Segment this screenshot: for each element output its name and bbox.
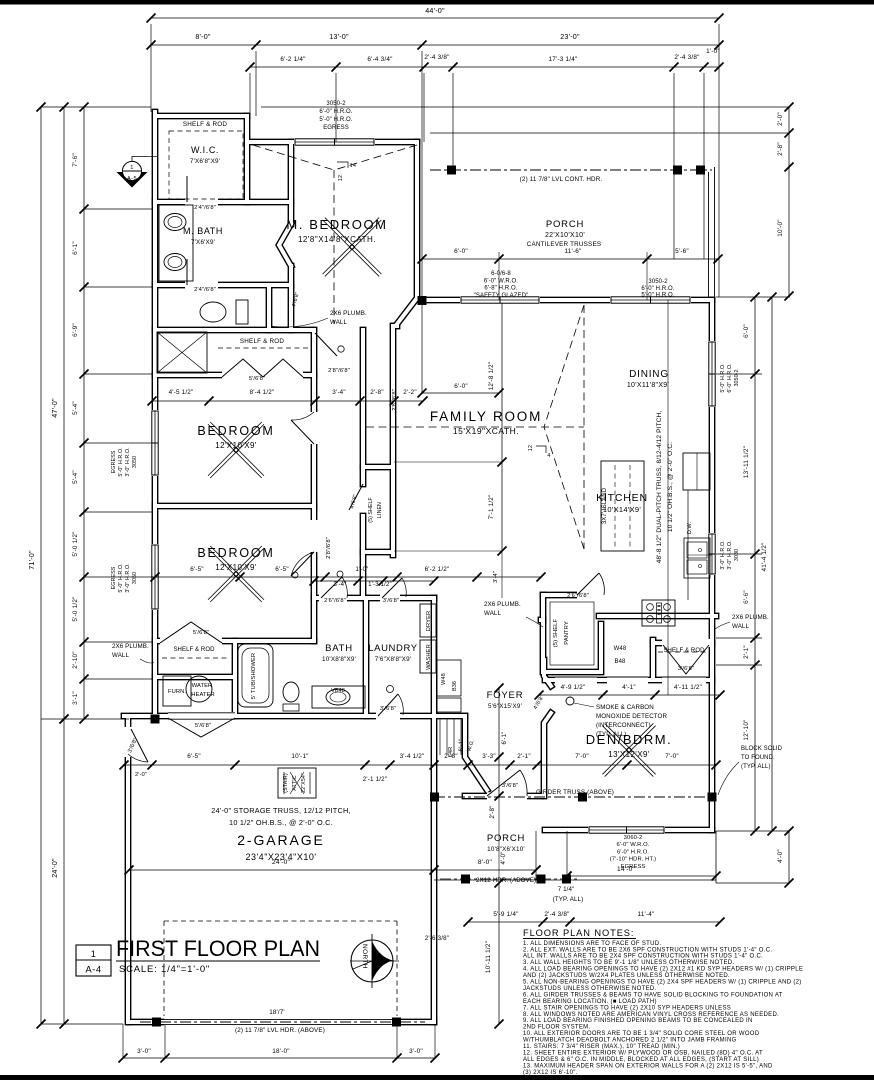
svg-text:2'-4 3/8": 2'-4 3/8" <box>544 911 569 918</box>
svg-text:3050-2: 3050-2 <box>326 101 346 107</box>
svg-text:8. ALL WINDOWS NOTED ARE AMERI: 8. ALL WINDOWS NOTED ARE AMERICAN VINYL … <box>523 1012 779 1018</box>
svg-text:4: 4 <box>547 453 550 459</box>
svg-text:A-4: A-4 <box>85 965 101 976</box>
svg-text:EACH BEARING LOCATION. (■ LOAD: EACH BEARING LOCATION. (■ LOAD PATH) <box>523 999 657 1005</box>
svg-text:7 1/4": 7 1/4" <box>558 886 575 893</box>
svg-text:2'4"/6'8": 2'4"/6'8" <box>194 287 216 293</box>
svg-text:5'-0" H.R.O.: 5'-0" H.R.O. <box>118 563 124 592</box>
svg-text:6'-5": 6'-5" <box>190 566 204 573</box>
svg-text:3'-4": 3'-4" <box>493 571 499 583</box>
svg-text:FURN.: FURN. <box>168 689 186 695</box>
svg-text:10'-0": 10'-0" <box>777 219 784 236</box>
svg-text:7'-0": 7'-0" <box>575 753 589 760</box>
svg-text:47'-0": 47'-0" <box>50 398 59 418</box>
svg-text:SHELF & ROD: SHELF & ROD <box>240 338 284 345</box>
svg-text:2'-2": 2'-2" <box>403 389 417 396</box>
svg-text:AND (2) JACKSTUDS W/2X4 PLATES: AND (2) JACKSTUDS W/2X4 PLATES UNLESS OT… <box>523 973 730 979</box>
svg-text:3'-0": 3'-0" <box>409 1048 423 1055</box>
svg-text:2'-1": 2'-1" <box>743 645 750 659</box>
svg-text:BEDROOM: BEDROOM <box>197 424 274 438</box>
svg-text:3'-3": 3'-3" <box>482 753 496 760</box>
svg-text:WALL: WALL <box>330 319 347 326</box>
svg-text:2. ALL EXT. WALLS ARE TO BE 2X: 2. ALL EXT. WALLS ARE TO BE 2X6 SPF CONS… <box>523 947 772 953</box>
svg-text:(7'-10" HDR. HT.): (7'-10" HDR. HT.) <box>610 857 656 863</box>
svg-text:(3) 2X12 IS 6'-10".: (3) 2X12 IS 6'-10". <box>523 1070 578 1076</box>
svg-text:SCALE: 1/4"=1'-0": SCALE: 1/4"=1'-0" <box>119 964 210 975</box>
svg-text:6'-2 1/4": 6'-2 1/4" <box>280 56 305 63</box>
svg-text:10'-1": 10'-1" <box>291 753 308 760</box>
svg-text:6-0/6-8: 6-0/6-8 <box>491 271 511 277</box>
svg-text:10. ALL EXTERIOR DOORS ARE TO: 10. ALL EXTERIOR DOORS ARE TO BE 1 3/4" … <box>523 1031 760 1037</box>
svg-text:FLOOR PLAN NOTES:: FLOOR PLAN NOTES: <box>523 928 634 938</box>
svg-text:3'-1": 3'-1" <box>72 691 79 705</box>
svg-text:6'-1": 6'-1" <box>72 241 79 255</box>
svg-text:BATH: BATH <box>325 643 353 654</box>
svg-text:B48: B48 <box>615 659 627 665</box>
svg-text:1: 1 <box>91 949 96 959</box>
svg-text:2'-8": 2'-8" <box>490 806 496 819</box>
svg-text:13'-0": 13'-0" <box>329 32 349 41</box>
svg-text:5'-0" H.R.O.: 5'-0" H.R.O. <box>319 117 352 123</box>
svg-text:12: 12 <box>528 445 534 452</box>
svg-text:5' TUB/SHOWER: 5' TUB/SHOWER <box>251 653 257 699</box>
svg-text:ATTIC: ATTIC <box>292 775 298 790</box>
svg-text:22"X54": 22"X54" <box>301 773 307 793</box>
svg-text:2'-4 3/8": 2'-4 3/8" <box>674 54 699 61</box>
svg-text:12'-10": 12'-10" <box>743 719 750 740</box>
svg-text:11. STAIRS: 7 3/4" RISER (MAX: 11. STAIRS: 7 3/4" RISER (MAX.), 10" TRE… <box>523 1044 680 1050</box>
svg-text:5'/6'8": 5'/6'8" <box>195 723 211 729</box>
svg-text:5'-4": 5'-4" <box>72 401 79 415</box>
svg-text:M. BEDROOM: M. BEDROOM <box>286 217 387 232</box>
svg-text:71'-0": 71'-0" <box>27 550 36 570</box>
svg-text:5'/6'8": 5'/6'8" <box>193 630 209 636</box>
svg-text:EGRESS: EGRESS <box>111 450 117 473</box>
svg-text:3'/6'8": 3'/6'8" <box>380 706 396 712</box>
svg-text:2X6 PLUMB.: 2X6 PLUMB. <box>330 310 367 317</box>
svg-text:W.I.C.: W.I.C. <box>191 145 219 155</box>
svg-text:7'6"X8'8"X9': 7'6"X8'8"X9' <box>375 656 411 663</box>
svg-text:(TYP. ALL): (TYP. ALL) <box>553 896 583 903</box>
svg-text:PANTRY: PANTRY <box>564 621 570 645</box>
svg-text:4'-1": 4'-1" <box>622 684 636 691</box>
svg-text:2'-6 3/8": 2'-6 3/8" <box>425 935 449 942</box>
svg-text:5'-0 1/2": 5'-0 1/2" <box>72 596 79 621</box>
svg-text:12'X10'X9': 12'X10'X9' <box>215 563 257 572</box>
svg-text:12'8"X14'8"XCATH.: 12'8"X14'8"XCATH. <box>298 235 376 244</box>
svg-text:8'-4 1/2": 8'-4 1/2" <box>250 389 275 396</box>
svg-text:10 1/2" OH.B.S., @ 2'-0" O.C.: 10 1/2" OH.B.S., @ 2'-0" O.C. <box>229 818 333 827</box>
svg-text:ALL INT. WALLS ARE TO BE 2X4 S: ALL INT. WALLS ARE TO BE 2X4 SPF CONSTRU… <box>523 954 763 960</box>
svg-text:44'-0": 44'-0" <box>425 6 445 15</box>
svg-text:2'8"/6'8": 2'8"/6'8" <box>392 389 398 411</box>
svg-text:6'-0": 6'-0" <box>454 248 468 255</box>
svg-text:FOYER: FOYER <box>487 690 524 701</box>
svg-text:1: 1 <box>130 165 134 171</box>
svg-text:(2) 11 7/8" LVL CONT. HDR.: (2) 11 7/8" LVL CONT. HDR. <box>520 176 603 183</box>
svg-text:6'-4 3/4": 6'-4 3/4" <box>367 56 392 63</box>
svg-text:3'-0" H.R.O.: 3'-0" H.R.O. <box>125 447 131 476</box>
svg-text:13'-11 1/2": 13'-11 1/2" <box>743 446 750 478</box>
svg-text:(TYP. ALL): (TYP. ALL) <box>741 764 771 770</box>
svg-text:MONOXIDE DETECTOR: MONOXIDE DETECTOR <box>596 713 667 720</box>
svg-text:3050-2: 3050-2 <box>648 279 668 285</box>
svg-text:WALL: WALL <box>484 610 501 617</box>
svg-text:TO FOUND.: TO FOUND. <box>741 755 775 761</box>
svg-text:2'8"/6'8": 2'8"/6'8" <box>328 368 350 374</box>
svg-text:(TYP. ALL): (TYP. ALL) <box>596 731 626 738</box>
svg-text:2'-1": 2'-1" <box>517 753 531 760</box>
svg-text:1'-3 1/2": 1'-3 1/2" <box>368 582 392 588</box>
svg-text:41'-4 1/2": 41'-4 1/2" <box>761 543 768 572</box>
svg-text:22'X10'X10': 22'X10'X10' <box>545 232 585 239</box>
svg-text:D.W.: D.W. <box>687 521 693 534</box>
svg-text:3'/6'8": 3'/6'8" <box>383 598 399 604</box>
svg-text:6. ALL GIRDER TRUSSES & BEAMS: 6. ALL GIRDER TRUSSES & BEAMS TO HAVE SO… <box>523 992 783 998</box>
svg-text:18'/7': 18'/7' <box>269 1009 285 1016</box>
svg-text:3030: 3030 <box>734 549 740 561</box>
svg-text:7'X6'8"X9': 7'X6'8"X9' <box>190 158 220 165</box>
svg-text:2ND FLOOR SYSTEM.: 2ND FLOOR SYSTEM. <box>523 1025 590 1031</box>
svg-text:WASHER: WASHER <box>426 644 432 670</box>
svg-text:WATER: WATER <box>192 683 213 689</box>
svg-text:8'-0": 8'-0" <box>478 859 493 866</box>
svg-text:3'/6'8": 3'/6'8" <box>502 783 518 789</box>
svg-text:A-5: A-5 <box>127 176 137 182</box>
svg-text:24'-0": 24'-0" <box>50 858 59 878</box>
svg-text:4'-11 1/2": 4'-11 1/2" <box>674 684 702 691</box>
svg-text:6'-8" H.R.O.: 6'-8" H.R.O. <box>484 286 517 292</box>
svg-text:5'-0" H.R.O.: 5'-0" H.R.O. <box>720 363 726 392</box>
svg-text:2'-10": 2'-10" <box>72 651 79 668</box>
svg-text:EGRESS: EGRESS <box>111 566 117 589</box>
svg-text:1'-0": 1'-0" <box>356 567 369 573</box>
svg-text:4'-0": 4'-0" <box>777 849 784 863</box>
svg-text:6'-5": 6'-5" <box>187 753 201 760</box>
svg-text:2'6"/6'8": 2'6"/6'8" <box>567 593 589 599</box>
svg-text:3'-0": 3'-0" <box>137 1048 151 1055</box>
svg-text:2'8"/6'8": 2'8"/6'8" <box>326 537 332 559</box>
svg-text:2X6 PLUMB.: 2X6 PLUMB. <box>484 601 521 608</box>
svg-text:GIRDER TRUSS (ABOVE): GIRDER TRUSS (ABOVE) <box>536 789 614 796</box>
svg-text:6'-9": 6'-9" <box>72 323 79 337</box>
svg-text:48'-8 1/2" DUAL-PITCH TRUSS, 8: 48'-8 1/2" DUAL-PITCH TRUSS, 8/12-4/12 P… <box>656 411 663 564</box>
svg-text:2-GARAGE: 2-GARAGE <box>237 832 325 848</box>
svg-text:2'4"/6'8": 2'4"/6'8" <box>194 205 216 211</box>
svg-text:3X7' ISLAND: 3X7' ISLAND <box>602 487 608 524</box>
svg-text:17'-3 1/4": 17'-3 1/4" <box>549 56 578 63</box>
svg-text:10'-11 1/2": 10'-11 1/2" <box>485 941 492 973</box>
svg-text:7'-0": 7'-0" <box>665 753 679 760</box>
svg-text:54R: 54R <box>448 747 454 757</box>
svg-text:6'-1": 6'-1" <box>502 732 508 745</box>
svg-text:5'-6": 5'-6" <box>675 248 689 255</box>
svg-text:7'-6": 7'-6" <box>72 153 79 167</box>
svg-text:5. ALL NON-BEARING OPENINGS TO: 5. ALL NON-BEARING OPENINGS TO HAVE (2) … <box>523 980 802 986</box>
svg-text:5'-4": 5'-4" <box>72 470 79 484</box>
svg-text:5'/6'8": 5'/6'8" <box>249 376 265 382</box>
svg-text:"SAFETY GLAZED": "SAFETY GLAZED" <box>474 293 529 299</box>
svg-text:6'-0" H.R.O.: 6'-0" H.R.O. <box>727 363 733 392</box>
svg-text:10'X11'8"X9': 10'X11'8"X9' <box>627 382 669 389</box>
svg-text:6'-0" W.R.O.: 6'-0" W.R.O. <box>616 842 649 848</box>
svg-text:11'-6": 11'-6" <box>564 248 581 255</box>
svg-text:10'X14'X9': 10'X14'X9' <box>603 505 641 514</box>
svg-text:(5) SHELF: (5) SHELF <box>368 497 374 523</box>
svg-text:5'-0" H.R.O.: 5'-0" H.R.O. <box>641 293 674 299</box>
svg-text:M. BATH: M. BATH <box>183 226 223 236</box>
svg-text:10'8"X6'X10': 10'8"X6'X10' <box>487 846 525 853</box>
svg-text:6'-6": 6'-6" <box>743 590 750 604</box>
svg-text:7'-1 1/2": 7'-1 1/2" <box>488 495 495 520</box>
svg-text:6'-0" H.R.O.: 6'-0" H.R.O. <box>319 109 352 115</box>
svg-text:4'-9 1/2": 4'-9 1/2" <box>561 684 586 691</box>
svg-text:SHELF & ROD: SHELF & ROD <box>663 648 705 654</box>
svg-text:4'-5 1/2": 4'-5 1/2" <box>169 389 194 396</box>
svg-text:B36: B36 <box>452 681 458 691</box>
svg-text:PORCH: PORCH <box>487 833 525 844</box>
svg-text:FAMILY ROOM: FAMILY ROOM <box>430 409 542 424</box>
svg-text:9. ALL LOAD BEARING FINISHED O: 9. ALL LOAD BEARING FINISHED OPENING BEA… <box>523 1018 753 1024</box>
svg-text:4'-0": 4'-0" <box>501 852 507 865</box>
svg-text:3'/6'8": 3'/6'8" <box>678 666 694 672</box>
svg-text:6'-2 1/2": 6'-2 1/2" <box>425 566 450 573</box>
svg-text:10 1/2" OH.B.S., @ 2'-0" O.C.: 10 1/2" OH.B.S., @ 2'-0" O.C. <box>667 442 674 532</box>
svg-text:3050-2: 3050-2 <box>734 369 740 386</box>
svg-text:SMOKE & CARBON: SMOKE & CARBON <box>596 704 654 711</box>
svg-text:6'-5": 6'-5" <box>275 566 289 573</box>
svg-text:SHELF & ROD: SHELF & ROD <box>183 121 227 128</box>
svg-text:DINING: DINING <box>629 369 669 380</box>
svg-text:7'X6'X9': 7'X6'X9' <box>191 239 215 246</box>
svg-text:3060-2: 3060-2 <box>624 835 643 841</box>
svg-text:3'-4": 3'-4" <box>334 582 347 588</box>
svg-text:PORCH: PORCH <box>546 219 584 230</box>
svg-text:24'-0" STORAGE TRUSS, 12/12 PI: 24'-0" STORAGE TRUSS, 12/12 PITCH, <box>211 806 351 815</box>
svg-text:6'-0" H.R.O.: 6'-0" H.R.O. <box>641 286 674 292</box>
svg-text:2'-8": 2'-8" <box>370 389 384 396</box>
svg-text:W/THUMBLATCH DEADBOLT ANCHORED: W/THUMBLATCH DEADBOLT ANCHORED 2 1/2" IN… <box>523 1038 737 1044</box>
svg-text:1. ALL DIMENSIONS ARE TO FACE: 1. ALL DIMENSIONS ARE TO FACE OF STUD. <box>523 941 661 947</box>
svg-text:13. MAXIMUM HEADER SPAN ON EXT: 13. MAXIMUM HEADER SPAN ON EXTERIOR WALL… <box>523 1063 773 1069</box>
svg-text:5'-0" H.R.O.: 5'-0" H.R.O. <box>118 447 124 476</box>
svg-text:ALL EDGES & 6" O.C. IN MIDDLE,: ALL EDGES & 6" O.C. IN MIDDLE, BLOCKED A… <box>523 1057 759 1063</box>
svg-text:3'-0" H.R.O.: 3'-0" H.R.O. <box>727 540 733 569</box>
svg-text:12: 12 <box>338 175 344 182</box>
svg-text:2'6"/6'8": 2'6"/6'8" <box>324 598 346 604</box>
svg-text:5'-9 1/4": 5'-9 1/4" <box>493 911 518 918</box>
svg-text:HEATER: HEATER <box>191 692 214 698</box>
svg-text:2'-1 1/2": 2'-1 1/2" <box>363 776 387 783</box>
svg-text:3'-0" H.R.O.: 3'-0" H.R.O. <box>720 540 726 569</box>
svg-text:3'-4 1/2": 3'-4 1/2" <box>400 753 425 760</box>
svg-text:3'-4": 3'-4" <box>332 389 346 396</box>
svg-text:VB48: VB48 <box>331 688 345 694</box>
svg-text:15'X19"XCATH.: 15'X19"XCATH. <box>453 426 519 436</box>
svg-text:DRYER: DRYER <box>426 611 432 632</box>
svg-text:LAUNDRY: LAUNDRY <box>368 643 417 654</box>
svg-text:WALL: WALL <box>732 623 749 630</box>
svg-text:6'-0" W.R.O.: 6'-0" W.R.O. <box>484 278 518 284</box>
svg-text:12'-8 1/2": 12'-8 1/2" <box>488 362 495 391</box>
svg-text:18'-0": 18'-0" <box>272 1048 289 1055</box>
svg-text:W48: W48 <box>441 673 447 685</box>
svg-text:EGRESS: EGRESS <box>621 864 646 870</box>
svg-text:JACKSTUDS UNLESS OTHERWISE NOT: JACKSTUDS UNLESS OTHERWISE NOTED. <box>523 986 657 992</box>
svg-text:3050: 3050 <box>132 456 138 468</box>
svg-text:12. SHEET ENTIRE EXTERIOR W/ P: 12. SHEET ENTIRE EXTERIOR W/ PLYWOOD OR … <box>523 1050 763 1056</box>
svg-text:BLOCK SOLID: BLOCK SOLID <box>741 746 783 752</box>
svg-text:2'-4 3/8": 2'-4 3/8" <box>424 54 449 61</box>
svg-text:5'-0 1/2": 5'-0 1/2" <box>72 531 79 556</box>
svg-text:14: 14 <box>350 163 357 169</box>
svg-text:2X6 PLUMB.: 2X6 PLUMB. <box>112 643 149 650</box>
svg-text:6'-0": 6'-0" <box>743 324 750 338</box>
svg-text:2X12 HDR. (ABOVE): 2X12 HDR. (ABOVE) <box>476 877 536 884</box>
svg-text:7. ALL STAIR OPENINGS TO HAVE: 7. ALL STAIR OPENINGS TO HAVE (2) 2X10 S… <box>523 1005 731 1011</box>
svg-text:2'-0": 2'-0" <box>135 772 147 778</box>
svg-text:13'X12'X9': 13'X12'X9' <box>608 750 650 759</box>
svg-text:2'-8": 2'-8" <box>777 142 784 156</box>
svg-text:10'X8'8"X9': 10'X8'8"X9' <box>322 656 356 663</box>
svg-text:12'X10'X9': 12'X10'X9' <box>215 441 257 450</box>
svg-text:EGRESS: EGRESS <box>323 125 349 131</box>
svg-text:23'4"X23'4"X10': 23'4"X23'4"X10' <box>245 852 316 862</box>
svg-text:8'-0": 8'-0" <box>195 32 211 41</box>
svg-text:6'-0": 6'-0" <box>454 383 468 390</box>
svg-text:(INTERCONNECT): (INTERCONNECT) <box>596 722 651 729</box>
svg-text:2X6 PLUMB.: 2X6 PLUMB. <box>732 614 769 621</box>
svg-text:(5) SHELF: (5) SHELF <box>553 619 559 648</box>
svg-text:LINEN: LINEN <box>377 502 383 518</box>
svg-text:NORTH: NORTH <box>361 944 368 969</box>
svg-text:W48: W48 <box>614 646 627 652</box>
svg-text:4. ALL LOAD BEARING OPENINGS T: 4. ALL LOAD BEARING OPENINGS TO HAVE (2)… <box>523 967 803 973</box>
svg-text:2'-0": 2'-0" <box>777 112 784 126</box>
svg-text:5'6"X15'X9': 5'6"X15'X9' <box>488 703 522 710</box>
svg-text:6'-0" H.R.O.: 6'-0" H.R.O. <box>617 849 649 855</box>
svg-text:23'-0": 23'-0" <box>560 32 580 41</box>
svg-text:3050: 3050 <box>132 572 138 584</box>
svg-text:SHELF & ROD: SHELF & ROD <box>173 647 215 653</box>
svg-text:(STAIR): (STAIR) <box>283 773 289 793</box>
svg-text:11'-4": 11'-4" <box>637 911 654 918</box>
svg-text:1'-0": 1'-0" <box>706 48 720 55</box>
svg-text:BEDROOM: BEDROOM <box>197 546 274 560</box>
svg-text:CANTILEVER TRUSSES: CANTILEVER TRUSSES <box>527 241 602 248</box>
svg-text:3. ALL WALL HEIGHTS TO BE 9'-1: 3. ALL WALL HEIGHTS TO BE 9'-1 1/8" UNLE… <box>523 960 734 966</box>
svg-text:6'-1": 6'-1" <box>459 739 465 752</box>
svg-text:FIRST FLOOR PLAN: FIRST FLOOR PLAN <box>116 936 320 961</box>
svg-text:WALL: WALL <box>112 652 129 659</box>
svg-text:3'-0" H.R.O.: 3'-0" H.R.O. <box>125 563 131 592</box>
svg-text:(2) 11 7/8" LVL HDR. (ABOVE): (2) 11 7/8" LVL HDR. (ABOVE) <box>235 1027 325 1034</box>
